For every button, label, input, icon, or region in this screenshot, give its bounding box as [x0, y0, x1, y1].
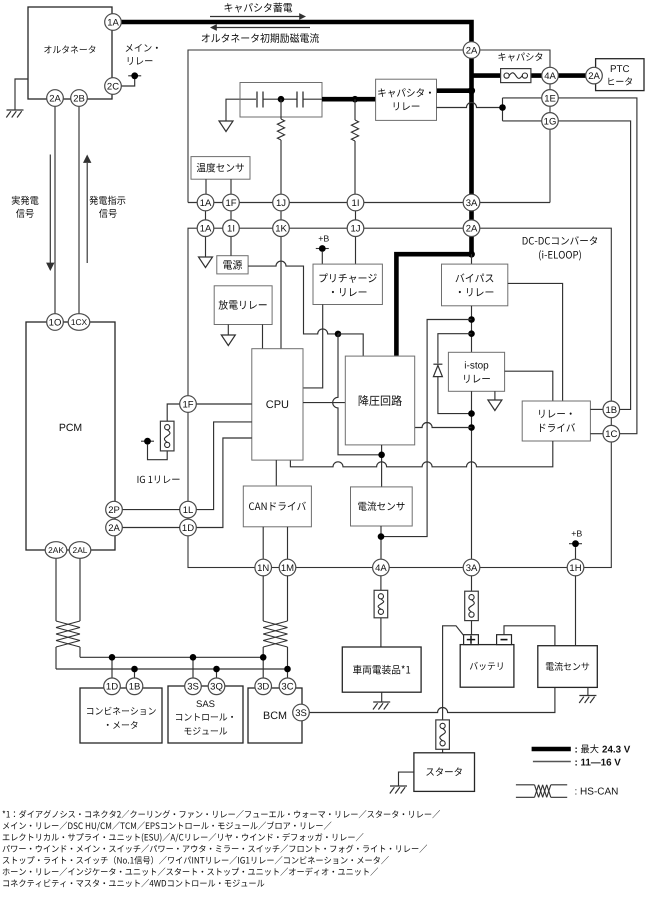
temperature sensor box (温度センサ) [191, 157, 250, 180]
svg-text:2P: 2P [108, 505, 120, 516]
BCM box [248, 688, 302, 743]
wire: battery positive to starter cable [443, 626, 464, 720]
port 2AL PCM [69, 542, 91, 559]
port 1I capacitor row [347, 194, 364, 211]
fuse: capacitor fuse [501, 69, 531, 83]
node: bus junction 3C [284, 666, 291, 673]
svg-text:2B: 2B [73, 93, 85, 104]
wire: drive node to step-down circuit top [338, 334, 363, 356]
wire: current sensor to 4A [380, 526, 382, 560]
port 3S BCM side [293, 704, 310, 721]
wire: 1K to CPU [280, 236, 282, 349]
wire: bus stub to 3S SAS [192, 657, 194, 678]
svg-text:1N: 1N [257, 563, 269, 574]
battery positive terminal [464, 635, 479, 645]
chassis ground triangle below i-stop relay [488, 400, 502, 411]
wire: bus node down to bypass relay [471, 254, 473, 264]
IG1 relay contact [160, 421, 174, 451]
port 1B converter right [603, 401, 620, 418]
node: step-down output junction [378, 452, 385, 459]
wire: diode to i-stop output junction [438, 377, 472, 414]
wire: CAN driver to 1N [262, 527, 264, 560]
ground (chassis) below vehicle loads [373, 702, 390, 710]
svg-text:1K: 1K [275, 224, 287, 235]
svg-text:SAS: SAS [196, 699, 215, 710]
legend: thick line sample [532, 747, 571, 752]
PTC heater box [596, 59, 644, 91]
svg-text::: : [575, 745, 578, 756]
port 3Q SAS [208, 678, 225, 695]
node: bus junction 1D [109, 654, 116, 661]
port 2A converter row [463, 220, 480, 237]
svg-text:1G: 1G [544, 116, 557, 127]
svg-text:1M: 1M [281, 563, 294, 574]
battery box (バッテリ) [460, 645, 514, 688]
signal arrow line (generation command signal, up) [86, 163, 88, 263]
wire: power supply branch with hops to CPU feed node [248, 261, 338, 334]
svg-text:3S: 3S [295, 708, 307, 719]
port 1D converter left [180, 519, 197, 536]
wire: 1M down to CAN twist [287, 576, 289, 670]
port 2C alternator [105, 78, 122, 95]
label: generation command signal (発電指示信号) [89, 196, 125, 205]
node: current sensor output junction [378, 533, 385, 540]
svg-text:1E: 1E [544, 93, 556, 104]
power tap: main relay feed [128, 72, 141, 79]
svg-text:1CX: 1CX [71, 317, 88, 327]
wire: bus stub to 3Q SAS [216, 669, 218, 678]
wire: 1E to relay driver 1C (outer right line) [558, 98, 637, 434]
footnote line 4 [3, 845, 428, 853]
port 2P PCM [106, 501, 123, 518]
wire: discharge relay to CPU [262, 325, 264, 349]
svg-text:3C: 3C [281, 682, 293, 693]
battery negative terminal [497, 635, 512, 645]
wire: BCM 3S to battery current sensor with hop over starter cable [309, 687, 555, 712]
svg-text:3D: 3D [257, 682, 269, 693]
node: bypass output junction B [468, 330, 475, 337]
wire: i-stop output down to 3A [471, 391, 473, 559]
wire: IG1 relay tap loop [148, 445, 168, 460]
bypass relay box (バイパス・リレー) [442, 264, 508, 306]
port 1I converter row [223, 220, 240, 237]
port 1O PCM [47, 314, 64, 331]
ground (chassis) below current sensor [579, 696, 596, 704]
port 1K converter row [273, 220, 290, 237]
port 1A converter row [197, 220, 214, 237]
DC-DC converter container box [188, 228, 611, 567]
label: alternator initial excitation current [202, 33, 319, 43]
wire: 1F to CPU [196, 403, 252, 405]
wire: CAN driver to 1M [287, 527, 289, 560]
SAS control module box [168, 686, 243, 743]
arrow left: initial excitation current direction [216, 27, 310, 29]
node: bypass output junction A [468, 316, 475, 323]
wires: connector stubs between port rows [206, 211, 356, 221]
battery current sensor box (電流センサ) [538, 646, 598, 688]
port 1D meter [104, 678, 121, 695]
wire: drive node down to sense node (hops left over CPU wire) [333, 334, 382, 455]
wire: bus stub to 1D meter [111, 657, 113, 678]
wire: precharge relay to CPU right side [303, 305, 323, 388]
wire: +B to precharge relay [321, 252, 323, 264]
PCM box [26, 322, 115, 550]
wire: 2AK down to CAN twist [55, 558, 57, 669]
node: CPU drive node [335, 331, 342, 338]
resistor R1 (capacitor voltage divider) [280, 99, 282, 119]
wire: +B tap to 1H [575, 547, 577, 559]
wire: PCM 2A to 1D [122, 527, 180, 529]
wire: bus stub to 1B meter [134, 669, 136, 678]
CPU box [252, 349, 303, 460]
wire: thick from capacitor to capacitor relay [303, 98, 322, 100]
wire: 1L to CPU [196, 422, 252, 510]
svg-text:2C: 2C [107, 81, 119, 92]
wire: i-stop relay control to relay driver [505, 371, 553, 401]
port 2A PCM [106, 519, 123, 536]
svg-text:2A: 2A [466, 224, 478, 235]
port 1H converter bottom [567, 559, 584, 576]
port 1N converter bottom [255, 559, 272, 576]
port 2B alternator [71, 90, 88, 107]
wire: relay driver bottom to CPU with hops [290, 441, 552, 467]
wire: thick capacitor relay to bus [437, 88, 474, 93]
svg-text:1F: 1F [182, 399, 193, 410]
wire: PCM 2P to 1L [122, 509, 180, 511]
svg-text:1I: 1I [352, 198, 360, 209]
node: 1E/1G branch junction [499, 104, 506, 111]
svg-text:2A: 2A [49, 93, 61, 104]
svg-text:1F: 1F [225, 198, 236, 209]
vehicle electrical loads box (車両電装品*1) [342, 647, 421, 692]
wire: CPU to CAN driver [275, 460, 277, 486]
svg-text:: HS-CAN: : HS-CAN [575, 787, 619, 798]
node: bus junction 3D [260, 654, 267, 661]
fuse: battery main [465, 591, 479, 620]
port 2AK PCM [45, 542, 67, 559]
port 2A PTC heater [586, 67, 603, 84]
svg-text:1L: 1L [183, 505, 194, 516]
port 4A capacitor unit [542, 67, 559, 84]
svg-text:1A: 1A [107, 17, 119, 28]
starter box (スタータ) [414, 753, 475, 792]
twisted pair: PCM HS-CAN [56, 621, 80, 647]
node: sense tap on thick line [352, 96, 359, 103]
arrow right: charge direction [210, 16, 300, 18]
discharge relay box (放電リレー) [214, 286, 272, 325]
svg-text:+B: +B [318, 234, 329, 244]
node: capacitor midpoint [278, 96, 285, 103]
label: IG 1 relay (IG 1リレー) [138, 476, 180, 484]
svg-text:1O: 1O [49, 317, 62, 328]
wire: thick capacitor charge bus 1A to 2A to relay node to converter [121, 22, 472, 356]
port 3D BCM [255, 678, 272, 695]
svg-text:+B: +B [571, 529, 582, 539]
wire: 1J to precharge relay [355, 236, 357, 264]
wire: junction D to step-down circuit with hop [415, 423, 472, 428]
port 1CX PCM [68, 314, 90, 331]
wire: 3A to battery fuse [471, 576, 473, 635]
wire: starter fuse to starter [442, 749, 444, 753]
svg-text:1J: 1J [350, 224, 360, 235]
precharge relay box (プリチャージ・リレー) [313, 264, 382, 304]
svg-text:1H: 1H [569, 563, 581, 574]
wire: CPU to step-down circuit [303, 402, 345, 404]
resistor R2 (sense line) [354, 99, 356, 120]
svg-text:3A: 3A [466, 563, 478, 574]
port 3A converter bottom [463, 559, 480, 576]
wires: temperature sensor legs to 1A and 1F [206, 179, 231, 194]
svg-text:24.3 V: 24.3 V [602, 745, 631, 756]
wire: IG1 relay to 1F [167, 404, 180, 421]
node: bus junction 3S [190, 654, 197, 661]
chassis ground triangle below 1A [199, 257, 213, 268]
svg-text:1B: 1B [605, 405, 617, 416]
power supply box (電源) [217, 256, 248, 274]
chassis ground triangle in capacitor unit [219, 121, 233, 132]
svg-text:BCM: BCM [263, 710, 287, 722]
port 1F converter left [180, 396, 197, 413]
wire: internal ground branch of capacitor [226, 99, 256, 121]
port 1G [542, 113, 559, 130]
wire: bypass relay control to relay driver [508, 283, 563, 401]
label: main relay (メイン・リレー) [126, 44, 158, 52]
wire: 1D to CPU [196, 438, 252, 528]
node: thick junction at bus [468, 87, 475, 94]
footnote *1 line 1 [3, 810, 440, 818]
port 1A capacitor row [197, 194, 214, 211]
legend: thin line sample [533, 761, 571, 763]
footnote line 6 [3, 868, 378, 876]
port 1B meter [126, 678, 143, 695]
ground (chassis) at starter [390, 786, 407, 794]
wire: discharge relay ground leg [227, 325, 229, 336]
svg-text:PCM: PCM [59, 422, 82, 434]
svg-text:1D: 1D [182, 523, 194, 534]
capacitor C1 plates [257, 92, 263, 108]
port 1C converter right [603, 425, 620, 442]
svg-text:2AL: 2AL [73, 545, 88, 555]
ground (chassis) at alternator [6, 110, 23, 118]
svg-text:3A: 3A [466, 198, 478, 209]
capacitor relay box (キャパシタ・リレー) [376, 79, 437, 120]
wire: 4A to vehicle electrical loads [380, 576, 382, 648]
footnote line 5 [3, 856, 389, 864]
port 3S SAS [185, 678, 202, 695]
wire: i-stop relay ground leg [494, 391, 496, 400]
port 1J converter row [347, 220, 364, 237]
port 1L converter left [180, 501, 197, 518]
twisted pair: converter HS-CAN [263, 621, 287, 647]
label: capacitor charge (キャパシタ蓄電) [225, 3, 293, 13]
wire: CAN bus upper line [80, 656, 263, 658]
wire: relay driver to 1B [590, 408, 603, 410]
wire: bus stub to 3D BCM [262, 657, 264, 678]
combination meter box (コンビネーション・メータ) [80, 688, 162, 743]
svg-text:3Q: 3Q [210, 682, 223, 693]
wire: step-down circuit output down to current sensor [381, 445, 383, 487]
wire: bypass relay output down to i-stop relay [471, 306, 473, 353]
wire: alternator 2B signal line down to PCM 1CX [78, 106, 80, 314]
svg-text:4A: 4A [375, 563, 387, 574]
capacitor cell box [240, 83, 322, 118]
power tap +B precharge [316, 245, 329, 252]
power tap +B at 1H [569, 540, 582, 547]
svg-text:3S: 3S [187, 682, 199, 693]
wire: relay driver to 1C [590, 433, 603, 435]
capacitor unit container box [188, 50, 550, 203]
alternator box [28, 7, 112, 99]
port 1M converter bottom [279, 559, 296, 576]
diode D1 [433, 364, 442, 376]
svg-text:PTC: PTC [610, 64, 630, 75]
port 2A alternator [47, 90, 64, 107]
svg-text:CPU: CPU [266, 399, 289, 411]
wire: CAN bus lower line [56, 668, 288, 670]
wire: battery current sensor ground [587, 687, 589, 695]
node: thick bus corner junction [468, 251, 475, 258]
wire: vehicle loads ground [381, 692, 383, 702]
port 3A capacitor row [463, 194, 480, 211]
i-stop relay box [448, 352, 504, 391]
port 1A alternator [105, 14, 122, 31]
current sensor box in converter (電流センサ) [351, 487, 413, 526]
svg-text:1I: 1I [227, 224, 235, 235]
wire: starter ground [399, 772, 414, 786]
fuse: vehicle loads [374, 590, 388, 618]
port 1J capacitor row [273, 194, 290, 211]
fuse: starter [436, 720, 450, 749]
wire: 1H down to battery current sensor [575, 576, 577, 646]
svg-text:2AK: 2AK [48, 545, 64, 555]
svg-text:1A: 1A [200, 224, 212, 235]
svg-text:1J: 1J [276, 198, 286, 209]
wire: capacitor unit bottom edge [188, 202, 550, 204]
ground wire from alternator [15, 79, 28, 110]
svg-text:2A: 2A [466, 45, 478, 56]
signal arrow line (actual generation signal, down) [49, 155, 51, 264]
node: bus junction 1B [131, 666, 138, 673]
step-down circuit box (降圧回路) [345, 356, 414, 445]
node: i-stop output junction D [468, 424, 475, 431]
relay driver box (リレー・ドライバ) [522, 401, 590, 441]
capacitor C2 plates [297, 92, 303, 108]
port 4A converter bottom [373, 559, 390, 576]
svg-text:1D: 1D [106, 682, 118, 693]
wire: diode branch from junction B [438, 334, 472, 364]
wire: 1G to relay driver 1B (inner right line) [558, 121, 631, 410]
label: actual generation signal (実発電信号) [12, 196, 39, 205]
svg-text:2A: 2A [588, 71, 600, 82]
IG1 relay power tap [141, 438, 154, 445]
label: DC-DC converter (i-ELOOP) [523, 236, 598, 245]
legend: HS-CAN twisted pair sample [516, 785, 567, 798]
wire: bus stub to 3C BCM [287, 669, 289, 678]
wire: thick fuse to 4A to 2A to PTC heater [531, 73, 597, 78]
port 3C BCM [279, 678, 296, 695]
wire: 2C to main relay tap [121, 79, 135, 86]
label: capacitor fuse (キャパシタ) [498, 53, 542, 62]
port 2A capacitor unit top [463, 42, 480, 59]
CAN driver box (CANドライバ) [243, 486, 311, 527]
svg-text:2A: 2A [108, 523, 120, 534]
wire between capacitor plates [263, 98, 297, 100]
svg-text:1A: 1A [200, 198, 212, 209]
footnote line 2 [3, 821, 331, 830]
node: i-stop output junction C [468, 410, 475, 417]
wire: thick capacitor line to fuse [472, 73, 501, 78]
port 1E [542, 90, 559, 107]
wire: alternator 2A signal line down to PCM 1O [54, 106, 56, 314]
wire: 1N down to CAN twist [262, 576, 264, 658]
svg-text:i-stop: i-stop [464, 361, 489, 372]
wire: branch vertical to 1E and 1G [503, 98, 543, 121]
wire: 2AL down to CAN twist [79, 558, 81, 657]
chassis ground triangle below discharge relay [221, 335, 235, 346]
wire: ground branch from 1A [205, 236, 207, 257]
svg-text:1C: 1C [605, 429, 617, 440]
svg-text:: 11—16 V: : 11—16 V [575, 758, 622, 769]
wire: 1I to power supply box [230, 236, 232, 256]
port 1F capacitor row [223, 194, 240, 211]
wire: bypass branch to current sensor output (bypass path) [381, 320, 472, 537]
svg-text:1B: 1B [129, 682, 141, 693]
wire: capacitor relay control to 1E/1G with hop over thick bus [437, 103, 503, 108]
node: bus junction 3Q [213, 666, 220, 673]
footnote line 3 [3, 833, 364, 842]
svg-text:4A: 4A [544, 71, 556, 82]
footnote line 7 [3, 879, 264, 887]
wire: battery negative to current sensor [504, 626, 555, 646]
